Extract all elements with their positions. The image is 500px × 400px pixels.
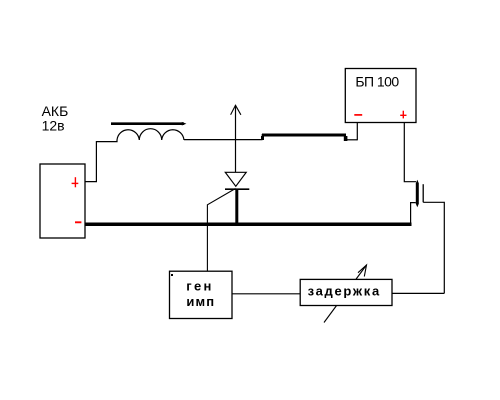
svg-text:БП 100: БП 100 [355, 74, 399, 90]
svg-text:АКБ: АКБ [42, 103, 69, 119]
svg-text:имп: имп [186, 294, 215, 309]
svg-text:задержка: задержка [308, 284, 381, 299]
svg-text:ген: ген [186, 279, 213, 294]
svg-text:12в: 12в [42, 118, 65, 134]
